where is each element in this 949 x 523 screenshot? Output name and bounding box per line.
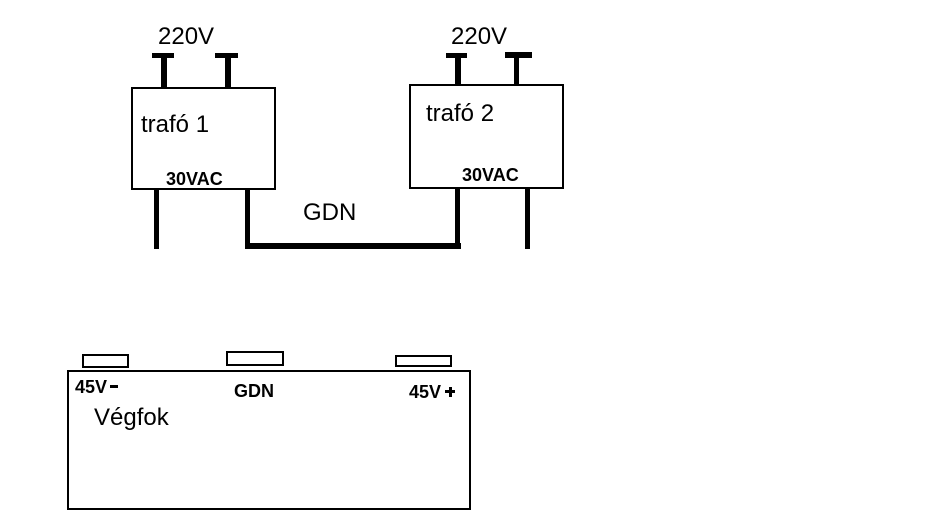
pin label 45V+ plus vertical stroke <box>449 387 452 397</box>
pin label 45V+ <box>409 383 441 401</box>
wire: pin2 stem into TR1 <box>225 57 231 88</box>
transformer TR2 box <box>409 84 564 189</box>
label 220V (TR1 primary) <box>158 25 214 49</box>
pin label 45V- dash <box>110 385 118 388</box>
pin label 45V+ plus horizontal stroke <box>445 390 455 393</box>
transformer TR1 box <box>131 87 276 190</box>
amplifier block Végfok box <box>67 370 471 510</box>
terminal pad 45V+ (connector rectangle) <box>395 355 452 367</box>
value label 30VAC (TR1 secondary) <box>166 170 223 188</box>
wire: GDN bus (thick horizontal) <box>245 243 461 249</box>
wire: TR2 secondary right lead <box>525 188 530 249</box>
wire: TR1 secondary right lead down to GDN bus <box>245 189 250 249</box>
label Végfok <box>94 406 169 430</box>
wire: TR2 pin1 stem <box>455 57 461 84</box>
value label 30VAC (TR2 secondary) <box>462 166 519 184</box>
pin label 45V- <box>75 378 107 396</box>
terminal pin 2 of TR1 (T bar) <box>215 53 238 58</box>
net label GDN (bus) <box>303 201 356 225</box>
wire: pin1 stem into TR1 <box>161 57 167 88</box>
label trafó 1 <box>141 113 209 137</box>
label trafó 2 <box>426 102 494 126</box>
wire: TR2 pin2 stem <box>514 57 519 84</box>
terminal pin 1 of TR1 (T bar) <box>152 53 174 58</box>
terminal pin 1 of TR2 (T bar) <box>446 53 467 58</box>
terminal pin 2 of TR2 (T bar) <box>505 52 532 58</box>
terminal pad 45V- (connector rectangle) <box>82 354 129 368</box>
wire: TR2 secondary left lead down to GDN bus <box>455 188 460 249</box>
terminal pad GDN (connector rectangle) <box>226 351 284 366</box>
pin label GDN <box>234 382 274 400</box>
label 220V (TR2 primary) <box>451 25 507 49</box>
wire: TR1 secondary left lead <box>154 189 159 249</box>
